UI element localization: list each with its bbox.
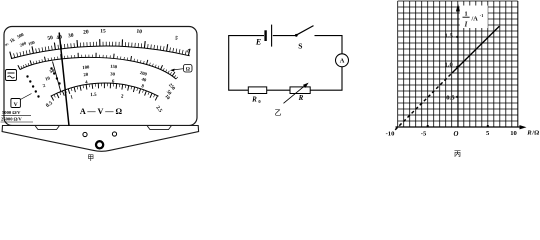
battery E (266, 25, 272, 47)
graph grid (398, 1, 518, 127)
sensitivity text 5000 ohm/V (2, 110, 32, 115)
terminal big circle (96, 141, 103, 148)
svg-text:R: R (251, 95, 257, 103)
V range box with pointer (11, 94, 32, 108)
x-axis unit R/ohm (526, 129, 539, 136)
svg-text:I: I (464, 22, 468, 29)
svg-text:100: 100 (82, 65, 90, 71)
x tick dots (427, 125, 489, 127)
svg-text:甲: 甲 (87, 154, 94, 162)
svg-text:5000 Ω/V: 5000 Ω/V (2, 110, 21, 115)
svg-text:Ω: Ω (186, 67, 190, 73)
DC scale labels row 2-10 (42, 79, 170, 101)
y-axis label background (460, 6, 488, 29)
svg-text:A: A (340, 58, 345, 65)
meter scale arc 3 (AC 2.5V scale) (51, 83, 159, 101)
multimeter base (bottom housing) (2, 126, 199, 152)
svg-text:25000 Ω/V: 25000 Ω/V (1, 117, 22, 122)
svg-text:-10: -10 (386, 131, 395, 138)
svg-text:1.0: 1.0 (445, 61, 454, 68)
switch S (295, 26, 314, 37)
right slot on face bottom edge (147, 126, 172, 130)
x-axis (396, 125, 527, 129)
y-axis label 1/I /A^-1 (463, 10, 484, 28)
svg-text:30: 30 (68, 33, 75, 40)
svg-text:1.5: 1.5 (90, 93, 97, 98)
svg-text:10: 10 (510, 130, 517, 137)
svg-text:O: O (454, 131, 459, 138)
sensitivity text 25000 ohm/V (1, 117, 34, 122)
ohm symbol box with pointer (170, 65, 192, 73)
svg-text:V: V (14, 102, 18, 108)
svg-text:S: S (298, 42, 302, 51)
rheostat R (284, 83, 311, 104)
terminal small circle right (112, 132, 116, 136)
svg-text:丙: 丙 (454, 150, 461, 158)
svg-text:10: 10 (136, 29, 142, 36)
svg-text:150: 150 (110, 65, 118, 71)
svg-text:-1: -1 (480, 13, 484, 18)
svg-text:/A: /A (471, 15, 479, 22)
dotted scale-end row B (26, 75, 39, 97)
y tick dots (456, 36, 458, 98)
meter scale arc 2 (DC scale) (18, 53, 178, 79)
svg-text:E: E (255, 38, 261, 47)
svg-text:1.5: 1.5 (445, 33, 454, 40)
plotted line dashed part (395, 73, 452, 130)
y-axis (456, 4, 460, 128)
svg-text:乙: 乙 (275, 109, 282, 117)
x tick labels (386, 130, 518, 138)
svg-text:A — V — Ω: A — V — Ω (80, 107, 123, 116)
ammeter A (336, 54, 349, 67)
plotted line solid part (452, 26, 499, 73)
AC scale labels 0.5-2.5 (45, 93, 163, 114)
DC scale labels row 50-250 (49, 65, 176, 92)
circuit wire loop (229, 36, 342, 91)
svg-text:-5: -5 (421, 131, 427, 138)
dotted scale-end row A (50, 67, 60, 84)
svg-text:/Ω: /Ω (531, 129, 539, 136)
terminal small circle left (83, 132, 87, 136)
multimeter face panel (4, 27, 197, 126)
resistor R0 (248, 87, 266, 94)
y tick labels (445, 33, 456, 102)
radial separator line (53, 62, 62, 93)
svg-text:R: R (526, 129, 532, 136)
svg-text:20: 20 (83, 29, 89, 35)
svg-text:1: 1 (464, 10, 467, 17)
left slot on face bottom edge (35, 126, 60, 130)
DC scale labels row 10-50 (45, 72, 172, 96)
meter scale arc 1 (ohm scale) (10, 39, 190, 59)
svg-text:0.5: 0.5 (446, 95, 455, 102)
meter needle (59, 33, 69, 126)
AC-DC symbol box (6, 70, 17, 81)
svg-text:R: R (298, 94, 304, 102)
svg-text:15: 15 (100, 28, 106, 34)
ohm scale labels (4, 28, 191, 55)
